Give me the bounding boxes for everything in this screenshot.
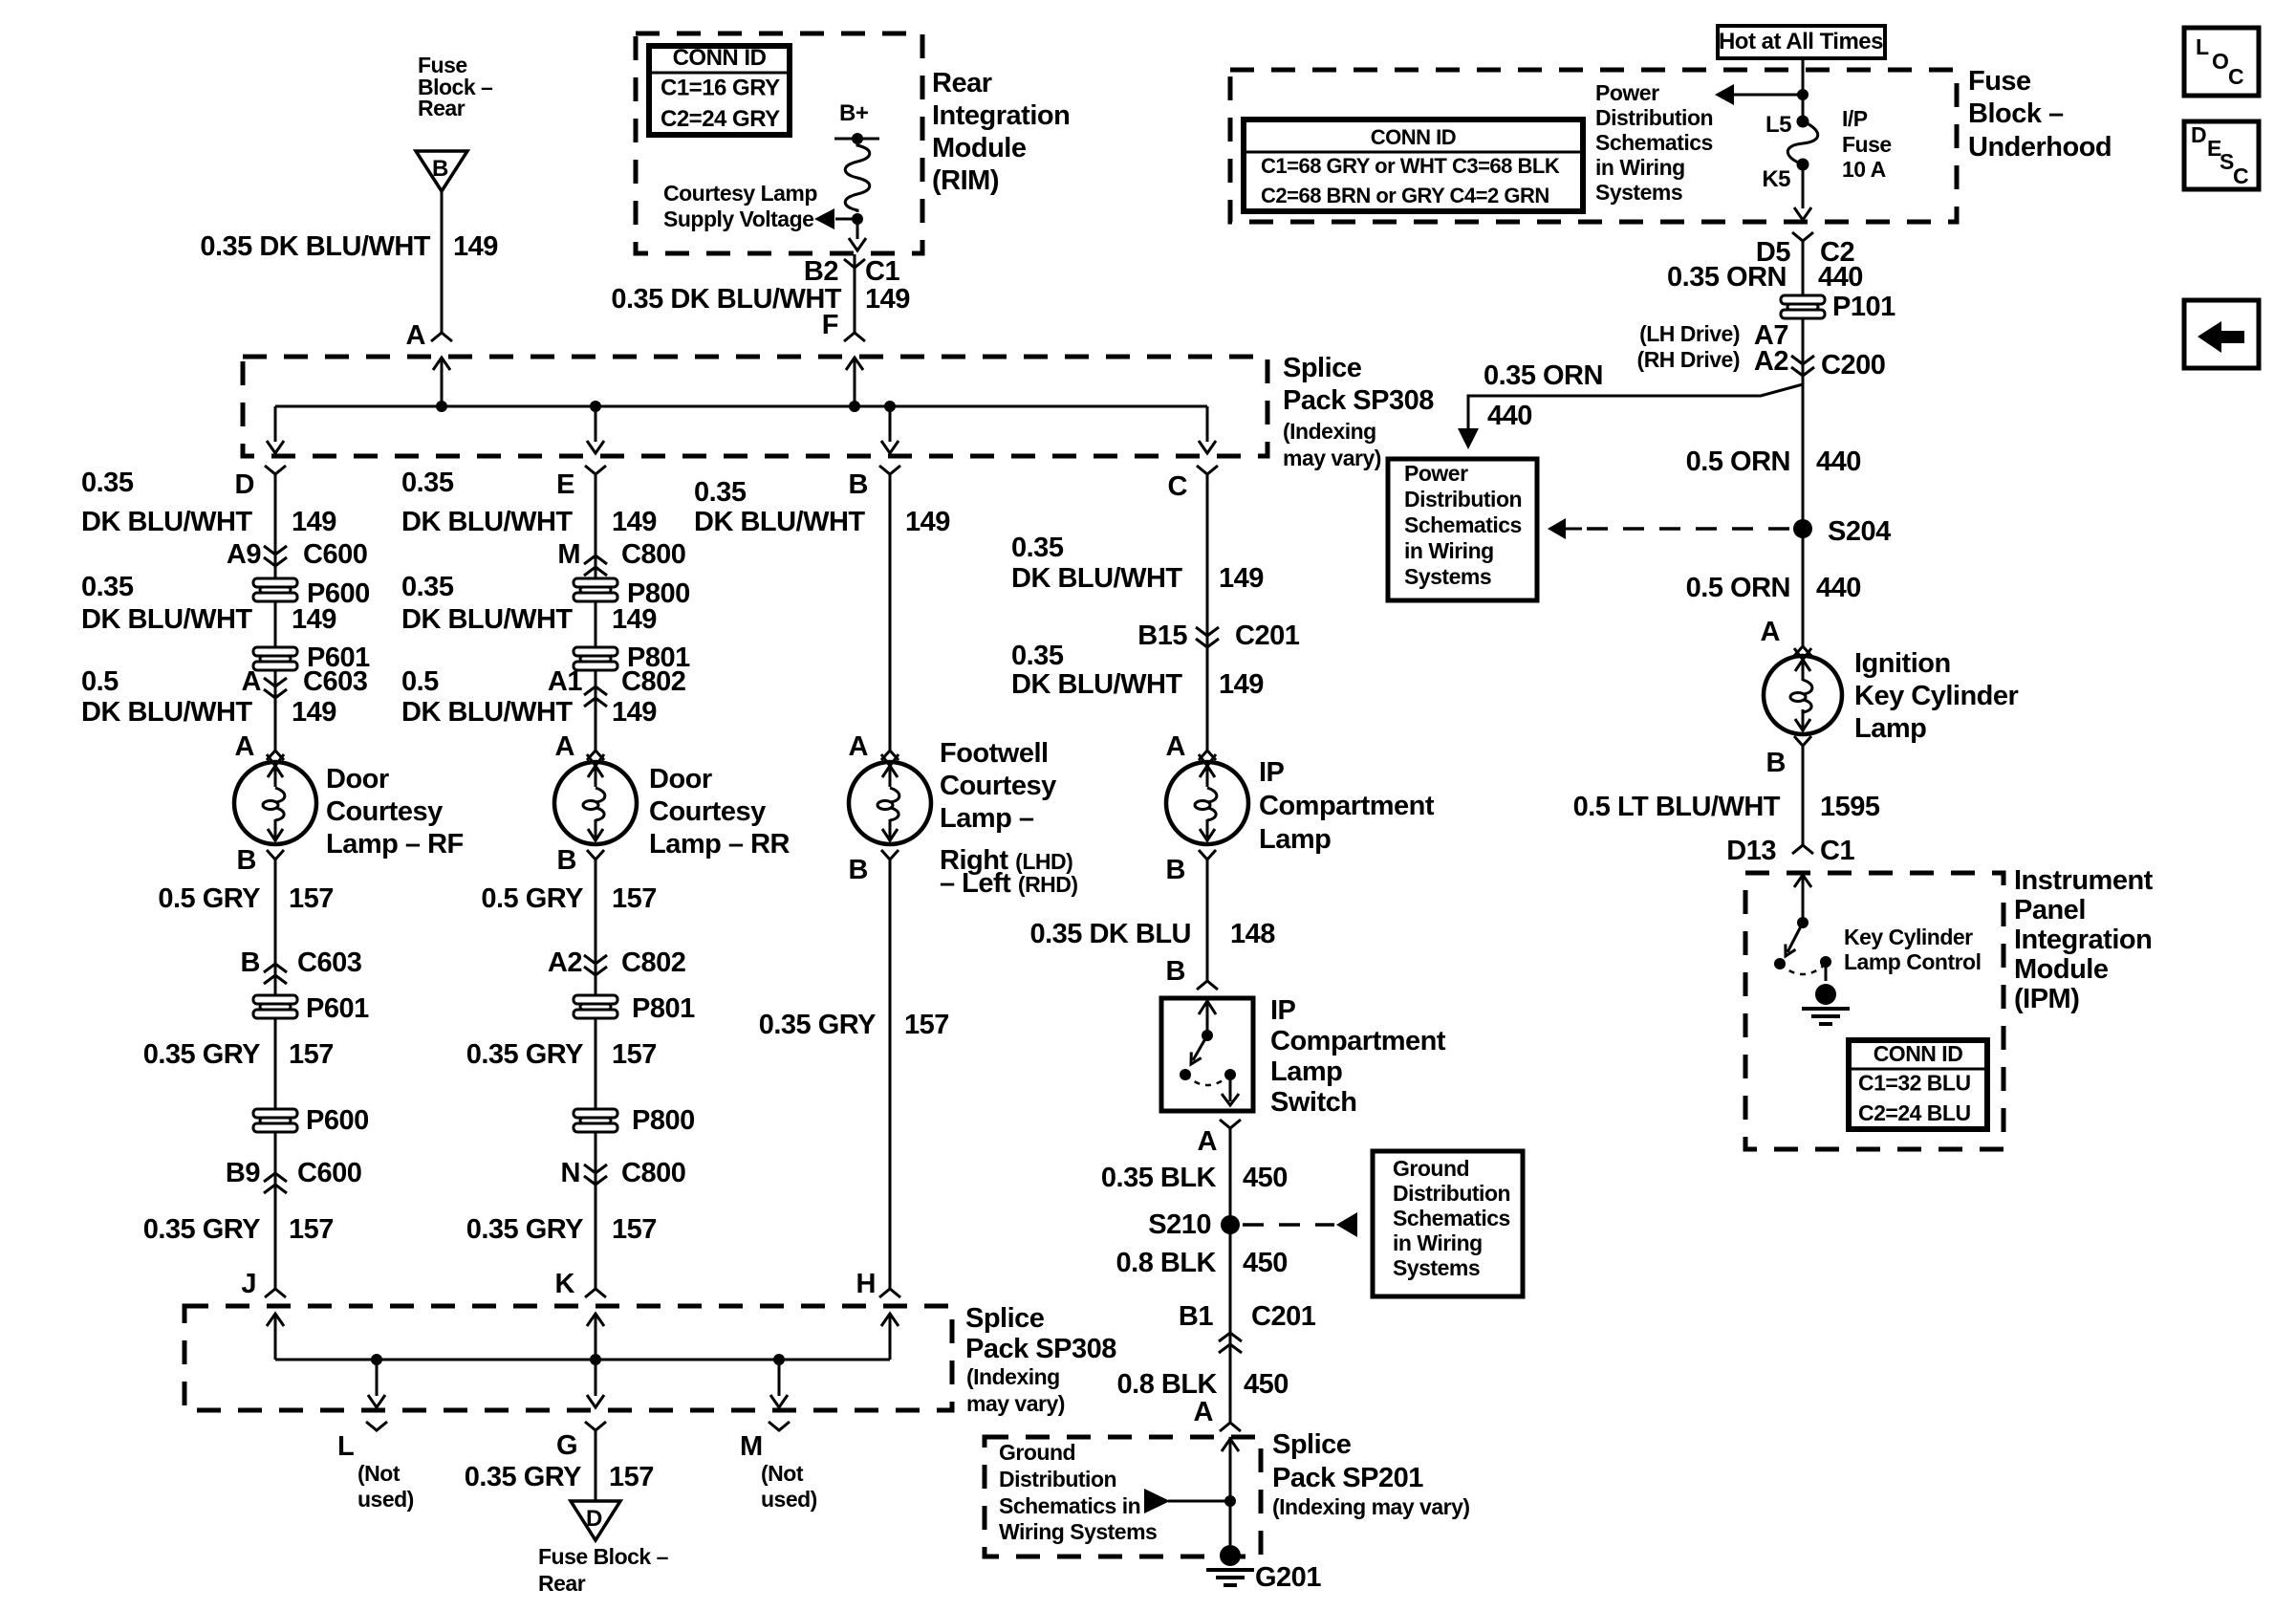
svg-text:(Not: (Not	[357, 1461, 401, 1486]
svg-text:CONN ID: CONN ID	[1371, 125, 1456, 149]
svg-text:Lamp: Lamp	[1270, 1056, 1342, 1087]
svg-text:A1: A1	[548, 666, 582, 697]
svg-text:B1: B1	[1179, 1301, 1213, 1332]
svg-text:M: M	[740, 1431, 763, 1462]
svg-text:P601: P601	[306, 993, 369, 1024]
svg-text:Pack SP308: Pack SP308	[1283, 385, 1434, 416]
svg-text:Systems: Systems	[1393, 1255, 1480, 1280]
svg-text:(Indexing: (Indexing	[1283, 419, 1376, 444]
svg-text:Footwell: Footwell	[940, 738, 1049, 769]
svg-text:B: B	[237, 845, 256, 876]
svg-text:0.35 GRY: 0.35 GRY	[143, 1039, 260, 1070]
svg-text:IP: IP	[1259, 757, 1285, 788]
svg-text:157: 157	[289, 1214, 334, 1245]
svg-text:C: C	[2233, 163, 2248, 188]
svg-text:Ignition: Ignition	[1854, 648, 1951, 679]
svg-text:Module: Module	[932, 133, 1027, 163]
svg-text:N: N	[561, 1158, 580, 1188]
svg-text:B: B	[432, 156, 448, 182]
svg-text:(Indexing may vary): (Indexing may vary)	[1272, 1494, 1470, 1519]
svg-text:Distribution: Distribution	[1595, 105, 1713, 130]
svg-text:DK BLU/WHT: DK BLU/WHT	[1011, 669, 1182, 700]
svg-text:C1=32 BLU: C1=32 BLU	[1858, 1071, 1971, 1096]
svg-text:0.35: 0.35	[1011, 533, 1064, 563]
svg-text:Pack SP308: Pack SP308	[965, 1334, 1116, 1364]
svg-text:D: D	[2191, 122, 2206, 147]
svg-text:0.35: 0.35	[401, 468, 454, 498]
svg-text:Instrument: Instrument	[2014, 865, 2154, 896]
svg-text:Lamp – RR: Lamp – RR	[649, 829, 791, 860]
svg-text:S204: S204	[1828, 516, 1891, 547]
svg-text:0.5 GRY: 0.5 GRY	[158, 883, 260, 914]
svg-text:C600: C600	[303, 539, 367, 570]
svg-text:440: 440	[1818, 262, 1863, 293]
svg-text:in Wiring: in Wiring	[1404, 538, 1494, 563]
svg-text:I/P: I/P	[1842, 106, 1868, 131]
svg-text:A: A	[1198, 1126, 1218, 1157]
svg-text:440: 440	[1816, 573, 1861, 603]
svg-text:0.35 BLK: 0.35 BLK	[1101, 1163, 1217, 1193]
svg-text:149: 149	[292, 604, 336, 635]
svg-text:149: 149	[292, 507, 336, 537]
svg-text:Wiring Systems: Wiring Systems	[999, 1519, 1157, 1544]
svg-text:0.35 GRY: 0.35 GRY	[466, 1039, 583, 1070]
svg-text:O: O	[2212, 49, 2228, 74]
svg-text:used): used)	[761, 1487, 817, 1512]
svg-text:157: 157	[609, 1462, 654, 1492]
svg-text:CONN ID: CONN ID	[1874, 1041, 1963, 1066]
svg-text:B2: B2	[804, 256, 838, 287]
svg-text:Rear: Rear	[418, 96, 466, 120]
svg-text:157: 157	[612, 1214, 657, 1245]
svg-text:C: C	[2228, 64, 2243, 89]
svg-text:A: A	[555, 731, 575, 762]
svg-text:Fuse: Fuse	[1968, 66, 2031, 97]
svg-text:D: D	[586, 1506, 602, 1532]
svg-text:(RIM): (RIM)	[932, 165, 999, 196]
svg-text:F: F	[822, 310, 838, 340]
svg-text:L: L	[337, 1431, 354, 1462]
svg-text:P801: P801	[632, 993, 695, 1024]
svg-text:A: A	[235, 731, 255, 762]
svg-text:C600: C600	[297, 1158, 361, 1188]
svg-text:Schematics: Schematics	[1595, 130, 1713, 155]
svg-text:440: 440	[1816, 446, 1861, 477]
svg-text:DK BLU/WHT: DK BLU/WHT	[81, 604, 252, 635]
svg-text:A: A	[849, 731, 869, 762]
svg-text:149: 149	[612, 507, 657, 537]
svg-text:Fuse Block –: Fuse Block –	[538, 1544, 669, 1569]
svg-text:149: 149	[612, 697, 657, 728]
svg-text:B: B	[1766, 748, 1786, 778]
svg-text:0.35 GRY: 0.35 GRY	[465, 1462, 581, 1492]
svg-text:0.35: 0.35	[694, 477, 747, 508]
svg-text:0.5 LT BLU/WHT: 0.5 LT BLU/WHT	[1573, 792, 1781, 822]
svg-text:DK BLU/WHT: DK BLU/WHT	[1011, 563, 1182, 594]
svg-text:A: A	[1761, 617, 1781, 647]
svg-text:(RH Drive): (RH Drive)	[1637, 347, 1740, 372]
svg-text:Integration: Integration	[2014, 925, 2152, 955]
svg-text:Underhood: Underhood	[1968, 132, 2112, 163]
svg-text:C603: C603	[303, 666, 368, 697]
svg-text:0.35 DK BLU/WHT: 0.35 DK BLU/WHT	[200, 231, 430, 262]
svg-text:E: E	[556, 469, 574, 500]
svg-text:Courtesy: Courtesy	[326, 796, 443, 827]
svg-text:0.35: 0.35	[81, 468, 134, 498]
svg-text:S210: S210	[1148, 1209, 1211, 1240]
svg-text:450: 450	[1243, 1163, 1288, 1193]
svg-text:Splice: Splice	[1283, 353, 1362, 383]
svg-text:450: 450	[1243, 1248, 1288, 1278]
svg-text:149: 149	[612, 604, 657, 635]
svg-text:– Left (RHD): – Left (RHD)	[940, 868, 1078, 899]
svg-text:B: B	[241, 947, 260, 978]
svg-text:148: 148	[1230, 919, 1275, 949]
svg-text:A: A	[1166, 731, 1186, 762]
svg-text:0.8 BLK: 0.8 BLK	[1117, 1369, 1218, 1400]
svg-text:0.35: 0.35	[81, 572, 134, 602]
svg-text:0.5 ORN: 0.5 ORN	[1686, 573, 1790, 603]
svg-text:Distribution: Distribution	[1393, 1181, 1510, 1206]
svg-text:(LH Drive): (LH Drive)	[1639, 321, 1740, 346]
svg-text:C2=24 BLU: C2=24 BLU	[1858, 1100, 1971, 1125]
svg-text:149: 149	[905, 507, 950, 537]
svg-text:in Wiring: in Wiring	[1393, 1230, 1483, 1255]
svg-text:Schematics in: Schematics in	[999, 1493, 1140, 1518]
svg-text:Door: Door	[326, 764, 389, 795]
svg-text:0.8 BLK: 0.8 BLK	[1116, 1248, 1217, 1278]
svg-text:0.5: 0.5	[401, 666, 439, 697]
svg-text:Key Cylinder: Key Cylinder	[1844, 925, 1973, 949]
svg-text:P101: P101	[1832, 292, 1895, 322]
svg-text:Key Cylinder: Key Cylinder	[1854, 681, 2018, 711]
svg-text:0.35: 0.35	[1011, 641, 1064, 671]
svg-text:used): used)	[357, 1487, 414, 1512]
svg-text:157: 157	[904, 1010, 949, 1040]
svg-text:C800: C800	[621, 539, 685, 570]
svg-text:may vary): may vary)	[966, 1391, 1065, 1416]
svg-text:149: 149	[865, 284, 910, 315]
svg-text:Fuse: Fuse	[1842, 132, 1892, 157]
svg-text:DK BLU/WHT: DK BLU/WHT	[694, 507, 865, 537]
svg-text:A: A	[406, 320, 426, 351]
svg-text:A: A	[1194, 1397, 1214, 1427]
svg-text:A2: A2	[548, 947, 582, 978]
svg-text:M: M	[557, 539, 580, 570]
svg-text:Panel: Panel	[2014, 895, 2086, 925]
svg-text:Ground: Ground	[999, 1440, 1075, 1465]
svg-text:10 A: 10 A	[1842, 157, 1886, 182]
svg-text:Module: Module	[2014, 954, 2109, 985]
svg-text:450: 450	[1244, 1369, 1289, 1400]
svg-text:B9: B9	[226, 1158, 260, 1188]
svg-text:L: L	[2196, 34, 2209, 59]
svg-text:149: 149	[1219, 669, 1264, 700]
svg-text:C201: C201	[1235, 620, 1300, 651]
svg-text:Lamp: Lamp	[1854, 713, 1926, 744]
svg-text:B+: B+	[839, 100, 869, 126]
svg-text:K: K	[555, 1269, 575, 1299]
svg-text:Systems: Systems	[1595, 180, 1682, 205]
svg-text:CONN ID: CONN ID	[673, 45, 767, 71]
svg-text:Schematics: Schematics	[1404, 512, 1522, 537]
svg-text:Hot at All Times: Hot at All Times	[1719, 29, 1883, 54]
svg-text:B: B	[1166, 956, 1185, 987]
svg-text:Systems: Systems	[1404, 564, 1491, 589]
svg-text:C1=68 GRY or WHT C3=68 BLK: C1=68 GRY or WHT C3=68 BLK	[1261, 154, 1560, 178]
svg-text:DK BLU/WHT: DK BLU/WHT	[81, 697, 252, 728]
svg-text:149: 149	[453, 231, 498, 262]
svg-text:C200: C200	[1821, 350, 1885, 381]
svg-text:Switch: Switch	[1270, 1087, 1356, 1118]
svg-text:0.35 DK BLU: 0.35 DK BLU	[1029, 919, 1191, 949]
svg-text:Splice: Splice	[965, 1303, 1045, 1334]
svg-text:Rear: Rear	[932, 68, 992, 98]
svg-text:J: J	[241, 1269, 256, 1299]
svg-text:C2=24 GRY: C2=24 GRY	[661, 106, 780, 132]
svg-text:D13: D13	[1726, 836, 1776, 866]
svg-text:DK BLU/WHT: DK BLU/WHT	[401, 507, 573, 537]
svg-text:DK BLU/WHT: DK BLU/WHT	[401, 697, 573, 728]
svg-text:C800: C800	[621, 1158, 685, 1188]
svg-text:A2: A2	[1754, 346, 1788, 377]
svg-text:0.35 DK BLU/WHT: 0.35 DK BLU/WHT	[611, 284, 841, 315]
svg-text:Door: Door	[649, 764, 712, 795]
svg-text:P800: P800	[632, 1105, 695, 1136]
svg-text:0.5: 0.5	[81, 666, 119, 697]
svg-text:0.5 ORN: 0.5 ORN	[1686, 446, 1790, 477]
svg-text:C201: C201	[1251, 1301, 1316, 1332]
svg-text:Distribution: Distribution	[1404, 487, 1522, 512]
svg-text:in Wiring: in Wiring	[1595, 155, 1685, 180]
svg-text:C1: C1	[865, 256, 899, 287]
svg-text:B15: B15	[1137, 620, 1187, 651]
svg-text:P600: P600	[306, 1105, 369, 1136]
svg-text:Power: Power	[1404, 461, 1468, 486]
svg-text:DK BLU/WHT: DK BLU/WHT	[401, 604, 573, 635]
svg-text:0.35 GRY: 0.35 GRY	[759, 1010, 876, 1040]
svg-text:149: 149	[292, 697, 336, 728]
svg-text:Rear: Rear	[538, 1571, 586, 1596]
svg-text:C1=16 GRY: C1=16 GRY	[661, 76, 780, 101]
svg-text:C: C	[1168, 471, 1188, 502]
svg-text:H: H	[856, 1269, 876, 1299]
svg-text:Supply Voltage: Supply Voltage	[663, 207, 813, 231]
svg-text:may vary): may vary)	[1283, 446, 1381, 470]
svg-text:Courtesy: Courtesy	[649, 796, 766, 827]
svg-text:0.35 ORN: 0.35 ORN	[1484, 360, 1603, 391]
svg-text:C802: C802	[621, 947, 685, 978]
svg-text:0.35 ORN: 0.35 ORN	[1667, 262, 1787, 293]
svg-text:(Not: (Not	[761, 1461, 804, 1486]
svg-text:149: 149	[1219, 563, 1264, 594]
svg-text:Lamp –: Lamp –	[940, 803, 1034, 834]
svg-text:IP: IP	[1270, 995, 1296, 1026]
svg-text:0.35 GRY: 0.35 GRY	[143, 1214, 260, 1245]
svg-text:0.35 GRY: 0.35 GRY	[466, 1214, 583, 1245]
svg-text:(Indexing: (Indexing	[966, 1364, 1060, 1389]
svg-text:G201: G201	[1255, 1562, 1321, 1593]
svg-text:157: 157	[612, 1039, 657, 1070]
svg-text:Lamp Control: Lamp Control	[1844, 949, 1982, 974]
svg-text:B: B	[1166, 855, 1185, 885]
svg-text:D: D	[235, 469, 254, 500]
svg-text:Courtesy: Courtesy	[940, 771, 1056, 801]
svg-text:C802: C802	[621, 666, 685, 697]
svg-text:Integration: Integration	[932, 100, 1070, 131]
svg-text:C2=68 BRN or GRY C4=2 GRN: C2=68 BRN or GRY C4=2 GRN	[1261, 184, 1549, 207]
svg-text:Block –: Block –	[1968, 98, 2064, 129]
svg-text:0.5 GRY: 0.5 GRY	[481, 883, 583, 914]
svg-text:440: 440	[1487, 401, 1532, 431]
svg-text:B: B	[849, 855, 868, 885]
svg-text:C1: C1	[1820, 836, 1854, 866]
svg-text:0.35: 0.35	[401, 572, 454, 602]
svg-text:Courtesy Lamp: Courtesy Lamp	[663, 181, 817, 206]
svg-text:DK BLU/WHT: DK BLU/WHT	[81, 507, 252, 537]
svg-text:L5: L5	[1765, 112, 1791, 138]
svg-text:Compartment: Compartment	[1270, 1026, 1446, 1056]
svg-text:Lamp: Lamp	[1259, 824, 1331, 855]
svg-text:C603: C603	[297, 947, 362, 978]
svg-text:Distribution: Distribution	[999, 1467, 1116, 1491]
svg-text:Pack SP201: Pack SP201	[1272, 1463, 1423, 1493]
svg-text:Lamp – RF: Lamp – RF	[326, 829, 464, 860]
svg-text:A: A	[242, 666, 262, 697]
svg-text:1595: 1595	[1820, 792, 1880, 822]
svg-text:157: 157	[289, 1039, 334, 1070]
svg-text:B: B	[849, 469, 868, 500]
svg-text:Schematics: Schematics	[1393, 1206, 1510, 1230]
svg-text:G: G	[556, 1430, 577, 1461]
svg-text:K5: K5	[1762, 166, 1790, 192]
svg-text:B: B	[557, 845, 576, 876]
svg-text:157: 157	[289, 883, 334, 914]
svg-text:Compartment: Compartment	[1259, 791, 1435, 821]
svg-text:Power: Power	[1595, 80, 1659, 105]
svg-text:Ground: Ground	[1393, 1156, 1469, 1181]
svg-text:157: 157	[612, 883, 657, 914]
svg-text:S: S	[2220, 149, 2234, 174]
svg-text:(IPM): (IPM)	[2014, 984, 2079, 1014]
svg-text:A9: A9	[227, 539, 261, 570]
svg-text:Splice: Splice	[1272, 1429, 1352, 1460]
